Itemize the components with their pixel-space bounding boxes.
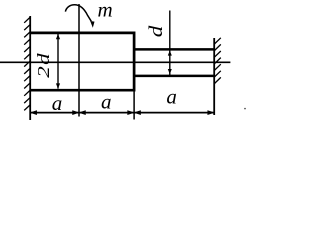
dimension a3 left arrow — [135, 111, 141, 115]
right wall — [213, 38, 215, 115]
dimension a2 left arrow — [80, 111, 86, 115]
dimension a1 left arrow at wall — [31, 111, 37, 115]
svg-text:d: d — [145, 25, 166, 37]
svg-text:a: a — [52, 91, 63, 115]
right wall hatching — [214, 38, 220, 84]
dimension d line with arrows — [168, 11, 172, 76]
dimension a3 right arrow at right wall — [208, 111, 214, 115]
svg-text:2d: 2d — [35, 52, 54, 78]
large shaft section (2d) — [30, 33, 134, 90]
svg-text:a: a — [101, 90, 112, 114]
torque arc arrow m — [65, 5, 94, 28]
speck — [244, 108, 246, 110]
torque axis line — [78, 4, 80, 117]
dimension a2 right arrow — [128, 111, 134, 115]
bottom dimension line — [31, 112, 214, 114]
left wall hatching — [24, 17, 30, 110]
dimension a1 right arrow — [73, 111, 79, 115]
svg-text:a: a — [166, 85, 177, 109]
centerline — [0, 61, 230, 63]
step extension line — [133, 90, 135, 120]
svg-text:m: m — [98, 0, 113, 22]
small shaft section (d) top edge — [134, 48, 215, 51]
dimension 2d line with arrows — [56, 34, 60, 89]
small shaft section (d) bottom edge — [134, 75, 215, 78]
left wall — [29, 16, 31, 120]
